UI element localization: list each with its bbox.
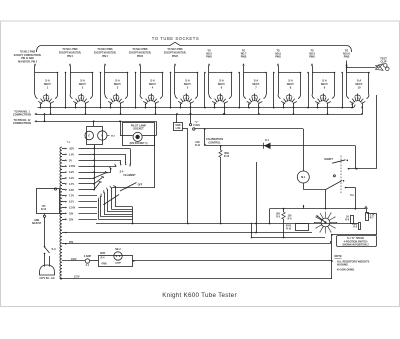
svg-text:S-A: S-A: [150, 78, 155, 82]
svg-text:S-A: S-A: [357, 78, 362, 82]
svg-text:S-4: S-4: [120, 170, 124, 173]
svg-text:IN OHMS.: IN OHMS.: [337, 264, 349, 267]
svg-text:EXCEPT NUVISTOR,: EXCEPT NUVISTOR,: [129, 53, 152, 55]
svg-text:SECT.: SECT.: [149, 82, 157, 86]
svg-text:TO NO.1 PINS: TO NO.1 PINS: [62, 49, 78, 51]
svg-text:PINS: PINS: [275, 56, 281, 59]
svg-text:S-A: S-A: [322, 78, 327, 82]
svg-text:NOTE:: NOTE:: [335, 255, 343, 258]
svg-text:S-2: S-2: [350, 194, 354, 197]
svg-text:117V 60~ AC: 117V 60~ AC: [39, 276, 55, 280]
svg-text:4700: 4700: [286, 225, 292, 228]
svg-text:S-A: S-A: [45, 78, 50, 82]
svg-text:SECT.: SECT.: [114, 82, 122, 86]
svg-text:OFF: OFF: [138, 184, 143, 187]
svg-text:SHOWN IN POSITION 2: SHOWN IN POSITION 2: [342, 244, 369, 247]
svg-text:CONTROL: CONTROL: [208, 141, 221, 144]
svg-text:D-1: D-1: [265, 139, 270, 142]
svg-text:K=1000 OHMS.: K=1000 OHMS.: [337, 269, 355, 272]
svg-text:S-A: S-A: [185, 78, 190, 82]
svg-text:EXCEPT NUVISTOR,: EXCEPT NUVISTOR,: [59, 53, 82, 55]
svg-text:3 AMP: 3 AMP: [84, 255, 92, 258]
svg-text:SECT.: SECT.: [321, 82, 329, 86]
svg-text:TO NO.5 PINS: TO NO.5 PINS: [167, 49, 183, 51]
svg-text:S-A: S-A: [288, 78, 293, 82]
svg-text:EXCEPT NUVISTOR,: EXCEPT NUVISTOR,: [94, 53, 117, 55]
svg-text:S-A: S-A: [219, 78, 224, 82]
svg-text:2V: 2V: [69, 159, 72, 162]
svg-text:SECT.: SECT.: [44, 82, 52, 86]
svg-text:T-1: T-1: [67, 140, 71, 144]
svg-text:110V: 110V: [71, 258, 77, 261]
svg-text:117V: 117V: [74, 276, 80, 279]
svg-text:R-13: R-13: [224, 155, 230, 158]
svg-text:LUG: LUG: [176, 128, 181, 130]
svg-text:R-10: R-10: [286, 228, 292, 230]
svg-text:PINS: PINS: [309, 56, 315, 59]
svg-text:COMPACTRON: COMPACTRON: [13, 122, 31, 125]
svg-text:SECT.: SECT.: [184, 82, 192, 86]
svg-text:S-A: S-A: [254, 78, 259, 82]
svg-text:2.2K: 2.2K: [370, 215, 375, 217]
svg-text:100K: 100K: [100, 253, 106, 255]
svg-text:R-16: R-16: [41, 209, 47, 211]
svg-text:FILAMENT: FILAMENT: [123, 174, 136, 177]
svg-text:SECT.: SECT.: [252, 82, 260, 86]
svg-text:PIN 11 AND: PIN 11 AND: [21, 57, 34, 60]
svg-text:.63V: .63V: [69, 148, 74, 151]
svg-text:S-A: S-A: [80, 78, 85, 82]
svg-text:3.2V: 3.2V: [69, 171, 74, 174]
svg-text:PIN 6: PIN 6: [67, 56, 73, 58]
svg-text:CLIP: CLIP: [381, 60, 387, 64]
svg-text:(ON SOCKET 1): (ON SOCKET 1): [130, 142, 148, 145]
svg-text:12.6V: 12.6V: [69, 207, 76, 210]
svg-text:SECT.: SECT.: [218, 82, 226, 86]
svg-text:EXCEPT COMPACTRON,: EXCEPT COMPACTRON,: [14, 54, 42, 57]
svg-text:SECT.: SECT.: [355, 82, 363, 86]
svg-text:S-A: S-A: [115, 78, 120, 82]
svg-text:Knight K600 Tube Tester: Knight K600 Tube Tester: [162, 292, 237, 299]
svg-text:1.4V: 1.4V: [69, 153, 74, 156]
svg-text:LUGS: LUGS: [193, 124, 200, 127]
svg-text:9.1V: 9.1V: [69, 201, 74, 204]
svg-text:SOCKET: SOCKET: [133, 128, 144, 131]
svg-text:NUVISTOR, PIN 2: NUVISTOR, PIN 2: [18, 61, 38, 63]
svg-text:PINS: PINS: [344, 56, 350, 59]
svg-text:PIN B: PIN B: [137, 56, 143, 58]
svg-text:2.35V: 2.35V: [69, 165, 76, 168]
svg-text:4.7V: 4.7V: [69, 183, 74, 186]
svg-text:7.5V: 7.5V: [69, 195, 74, 198]
svg-text:ADJUST: ADJUST: [32, 222, 42, 225]
svg-text:15K: 15K: [276, 214, 281, 216]
svg-text:COMPACTRON: COMPACTRON: [13, 113, 31, 116]
svg-text:M-1: M-1: [301, 176, 306, 179]
svg-text:LAMP: LAMP: [115, 262, 122, 265]
svg-text:S-3: S-3: [52, 247, 57, 251]
svg-text:SECT.: SECT.: [79, 82, 87, 86]
svg-text:GND: GND: [175, 125, 180, 127]
svg-text:SECT.: SECT.: [287, 82, 295, 86]
svg-text:TO NO.1 PINS: TO NO.1 PINS: [20, 52, 36, 54]
svg-text:6.3V: 6.3V: [69, 189, 74, 192]
svg-text:1K: 1K: [346, 217, 349, 219]
svg-text:TO TUBE SOCKETS: TO TUBE SOCKETS: [152, 36, 199, 41]
svg-text:19V: 19V: [69, 212, 74, 215]
svg-text:470K: 470K: [101, 263, 107, 266]
svg-text:25V: 25V: [69, 218, 74, 221]
svg-text:NE-2: NE-2: [115, 248, 121, 251]
svg-text:PIN 2: PIN 2: [102, 56, 108, 58]
svg-text:1.2K: 1.2K: [352, 224, 357, 226]
svg-text:PINS: PINS: [206, 56, 212, 59]
svg-text:TO NO.3 PINS: TO NO.3 PINS: [97, 49, 113, 51]
svg-text:TO NO.4 PINS: TO NO.4 PINS: [132, 48, 148, 51]
svg-text:SHORT: SHORT: [324, 158, 333, 161]
svg-text:4.2V: 4.2V: [69, 177, 74, 180]
svg-text:PIN B: PIN B: [172, 56, 178, 58]
svg-text:PINS: PINS: [241, 56, 247, 59]
svg-text:EXCEPT NUVISTOR,: EXCEPT NUVISTOR,: [164, 53, 187, 55]
svg-text:R-11: R-11: [195, 144, 201, 147]
